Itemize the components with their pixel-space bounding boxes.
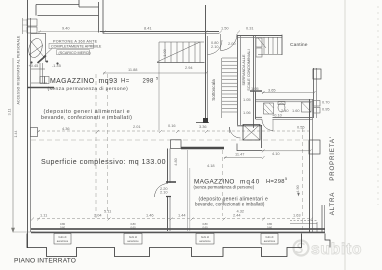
svg-text:1.00: 1.00: [162, 48, 167, 56]
svg-text:11.47: 11.47: [235, 152, 244, 157]
svg-text:bufo di: bufo di: [59, 235, 67, 239]
svg-text:bevande, confezionati e imball: bevande, confezionati e imballati): [195, 202, 265, 207]
svg-text:1.44: 1.44: [14, 131, 18, 138]
svg-text:1.44: 1.44: [178, 213, 186, 218]
svg-text:bufo di: bufo di: [129, 235, 137, 239]
svg-text:0.70: 0.70: [322, 100, 330, 105]
svg-text:0.60: 0.60: [267, 226, 273, 230]
svg-text:1.46: 1.46: [146, 213, 154, 218]
svg-text:4.10: 4.10: [272, 151, 280, 156]
svg-text:(SCARICO MERCI): (SCARICO MERCI): [59, 51, 91, 55]
svg-text:PORTONE A 360 ANTE: PORTONE A 360 ANTE: [53, 40, 98, 44]
svg-text:aerazione: aerazione: [199, 239, 211, 243]
svg-text:ACCESSO RISERVATO AL PERSONALE: ACCESSO RISERVATO AL PERSONALE: [17, 35, 21, 104]
svg-text:3.11: 3.11: [8, 109, 12, 116]
svg-text:0.80: 0.80: [130, 222, 136, 226]
svg-text:4.36: 4.36: [62, 126, 70, 131]
svg-text:bufo di: bufo di: [201, 235, 209, 239]
svg-text:2.10: 2.10: [211, 44, 219, 49]
svg-text:0.80: 0.80: [60, 222, 66, 226]
svg-text:0.95: 0.95: [322, 107, 330, 112]
svg-text:aerazione: aerazione: [264, 239, 276, 243]
svg-text:bevande, confezionati e imball: bevande, confezionati e imballati): [41, 115, 132, 121]
svg-text:PIANO INTERRATO: PIANO INTERRATO: [14, 258, 76, 265]
svg-text:Superficie complessivo: mq 13: Superficie complessivo: mq 133.00: [41, 159, 166, 166]
svg-text:1.05: 1.05: [251, 86, 259, 91]
svg-text:1.50: 1.50: [221, 26, 229, 31]
svg-text:1.06: 1.06: [243, 110, 251, 115]
svg-text:1.11: 1.11: [40, 213, 47, 218]
svg-text:PROPRIETA': PROPRIETA': [329, 136, 336, 180]
svg-text:0.60: 0.60: [60, 226, 66, 230]
svg-text:+0.45: +0.45: [29, 63, 39, 68]
svg-text:1.05: 1.05: [243, 97, 251, 102]
svg-text:2.04: 2.04: [94, 213, 102, 218]
svg-text:2.00: 2.00: [228, 41, 236, 46]
svg-text:0.31: 0.31: [246, 26, 254, 31]
svg-text:+0.10: +0.10: [272, 113, 283, 118]
svg-text:5.11: 5.11: [104, 209, 111, 214]
svg-text:Cantine: Cantine: [290, 42, 308, 48]
svg-text:9.40: 9.40: [62, 26, 70, 31]
svg-text:mq93: mq93: [99, 78, 118, 85]
svg-text:SERRANDA ALLE: SERRANDA ALLE: [242, 54, 246, 85]
svg-text:subito: subito: [311, 241, 362, 258]
svg-text:aerazione: aerazione: [57, 239, 69, 243]
svg-text:0.60: 0.60: [202, 226, 208, 230]
svg-text:2.44: 2.44: [233, 213, 241, 218]
svg-text:3.65: 3.65: [268, 88, 276, 93]
svg-text:2.01: 2.01: [133, 124, 141, 129]
svg-text:MAGAZZINO: MAGAZZINO: [50, 78, 95, 85]
svg-text:-1.45: -1.45: [52, 63, 61, 68]
svg-text:2.10: 2.10: [160, 189, 168, 194]
svg-text:2.40: 2.40: [281, 108, 289, 113]
svg-text:4.90: 4.90: [295, 184, 300, 192]
svg-text:8.41: 8.41: [144, 26, 152, 31]
svg-text:H=298: H=298: [266, 179, 285, 185]
svg-text:(senza permanenza di persone): (senza permanenza di persone): [194, 185, 255, 190]
svg-text:0.55: 0.55: [297, 125, 305, 130]
svg-text:bufo di: bufo di: [266, 235, 274, 239]
svg-text:COMPLETAMENTE APRIBILE: COMPLETAMENTE APRIBILE: [51, 45, 102, 49]
svg-text:4.18: 4.18: [207, 163, 215, 168]
svg-text:Sottoscala: Sottoscala: [211, 79, 216, 101]
svg-text:H=: H=: [121, 79, 130, 85]
svg-text:0.80: 0.80: [202, 222, 208, 226]
svg-text:ALTRA: ALTRA: [329, 192, 336, 216]
svg-text:4.80: 4.80: [173, 157, 178, 165]
svg-text:SCALE CONDOMINIALI: SCALE CONDOMINIALI: [247, 49, 251, 90]
svg-text:aerazione: aerazione: [127, 239, 139, 243]
svg-text:5: 5: [156, 77, 158, 81]
svg-text:0.80: 0.80: [267, 222, 273, 226]
svg-text:0.16: 0.16: [168, 123, 176, 128]
svg-text:0.60: 0.60: [130, 226, 136, 230]
svg-text:1.63: 1.63: [293, 213, 301, 218]
svg-text:2.94: 2.94: [185, 65, 193, 70]
svg-text:1.60: 1.60: [292, 108, 300, 113]
svg-text:298: 298: [143, 79, 154, 85]
svg-text:3.36: 3.36: [199, 124, 207, 129]
svg-text:(senza permanenza di persone): (senza permanenza di persone): [48, 86, 129, 92]
svg-text:11.88: 11.88: [128, 67, 137, 72]
svg-text:5: 5: [285, 177, 287, 181]
